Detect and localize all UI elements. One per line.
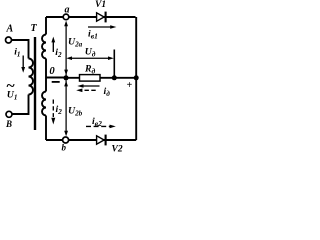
wire load: node 0 through Rd to rail: [66, 77, 136, 79]
svg-text:U2b: U2b: [68, 106, 83, 118]
svg-text:U1: U1: [7, 90, 18, 102]
svg-text:Rд: Rд: [84, 64, 96, 76]
svg-text:+: +: [127, 80, 133, 91]
voltage arrow U2b: [64, 81, 68, 137]
svg-text:i2: i2: [56, 104, 63, 116]
svg-text:i1: i1: [14, 47, 20, 59]
svg-text:A: A: [6, 24, 14, 35]
transformer T primary winding: [29, 59, 34, 95]
node a terminal: [63, 14, 69, 20]
svg-text:U2a: U2a: [68, 37, 83, 49]
current arrow iv1: [88, 25, 116, 29]
wire right rail: [135, 17, 137, 140]
wire top: node a to diode V1 to right rail: [46, 16, 136, 18]
wire secondary top lead: [45, 17, 47, 35]
current arrow i2 lower (dashed): [51, 100, 55, 125]
svg-text:b: b: [62, 143, 67, 153]
svg-text:0: 0: [49, 66, 55, 77]
voltage arrow Ud (double headed): [66, 56, 114, 60]
current arrow iv2 (dashed): [86, 125, 116, 129]
junction dot at stub: [112, 75, 117, 80]
terminal A: [6, 37, 12, 43]
current arrow i2 upper: [51, 37, 55, 52]
svg-text:iд: iд: [104, 86, 111, 98]
transformer T secondary upper winding: [42, 35, 46, 59]
transformer T secondary lower winding: [42, 92, 46, 116]
wire from terminal A: [11, 40, 29, 59]
wire center tap to node 0: [46, 77, 66, 79]
diode V1: [97, 12, 106, 23]
svg-text:T: T: [31, 23, 38, 34]
label minus: [52, 81, 60, 83]
wire secondary center tap stub: [45, 59, 47, 92]
current arrow i1: [21, 56, 25, 73]
svg-text:a: a: [65, 5, 70, 16]
transformer core: [34, 37, 36, 130]
voltage arrow U2a: [64, 21, 68, 76]
node 0 junction dot: [63, 75, 68, 80]
wire bottom: b to V2 to rail: [46, 139, 136, 141]
terminal B: [6, 111, 12, 117]
junction dot at rail: [134, 75, 139, 80]
svg-text:B: B: [5, 119, 12, 129]
diode V2: [97, 135, 106, 146]
svg-text:iв2: iв2: [92, 116, 102, 128]
svg-text:iв1: iв1: [88, 29, 98, 41]
wire stub Ud right: [113, 50, 115, 78]
svg-text:i2: i2: [55, 47, 62, 59]
current arrow id solid: [77, 84, 99, 88]
wire to terminal B: [12, 95, 29, 115]
svg-text:V1: V1: [95, 0, 106, 10]
svg-text:Uд: Uд: [85, 46, 96, 58]
svg-text:V2: V2: [112, 145, 123, 154]
current arrow id dashed: [76, 89, 96, 93]
wire secondary bottom lead: [45, 116, 47, 141]
resistor Rd body: [80, 75, 101, 82]
node b terminal: [63, 137, 69, 143]
